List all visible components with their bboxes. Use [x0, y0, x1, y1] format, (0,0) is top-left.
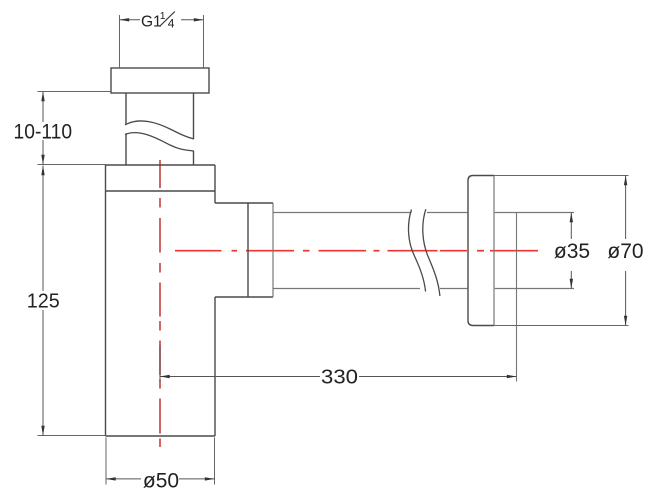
svg-text:125: 125	[27, 291, 60, 313]
svg-text:G1: G1	[141, 14, 162, 31]
svg-text:330: 330	[321, 367, 358, 389]
svg-text:4: 4	[168, 17, 175, 31]
svg-text:ø70: ø70	[607, 240, 643, 263]
svg-text:ø50: ø50	[143, 470, 179, 493]
svg-text:10-110: 10-110	[14, 121, 73, 144]
svg-text:ø35: ø35	[554, 240, 590, 263]
